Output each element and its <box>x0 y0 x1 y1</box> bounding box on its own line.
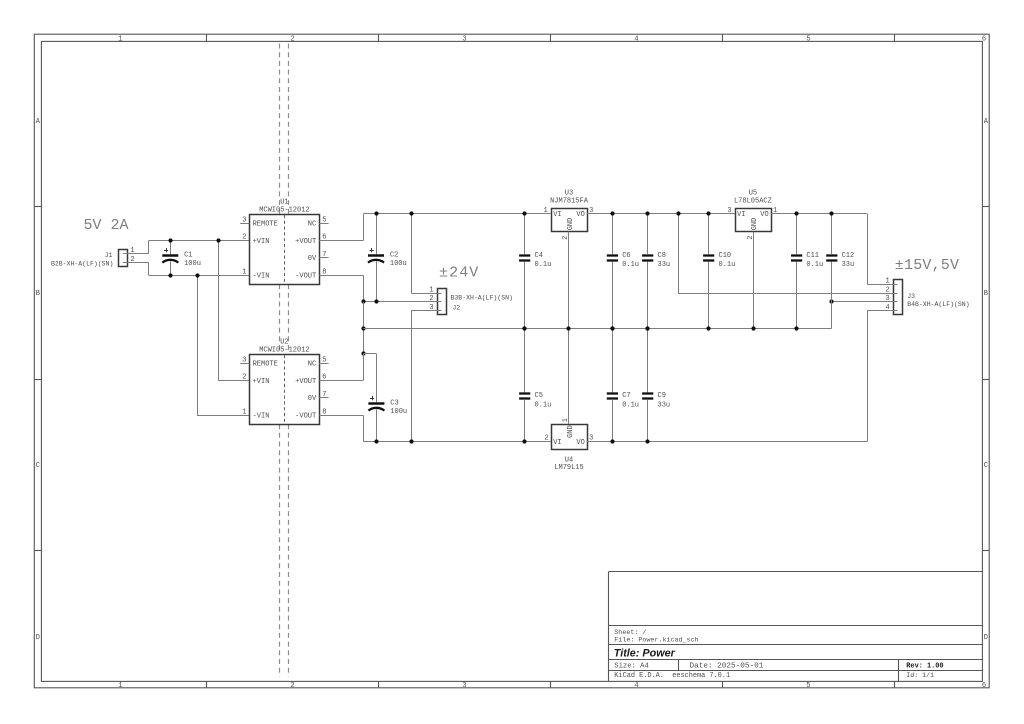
svg-text:C4: C4 <box>535 252 543 260</box>
svg-text:NC: NC <box>308 361 316 369</box>
junction C12 top <box>829 211 833 215</box>
svg-text:0.1u: 0.1u <box>719 261 736 269</box>
svg-text:NC: NC <box>308 221 316 229</box>
junction C1 bottom <box>168 273 172 277</box>
svg-text:1: 1 <box>242 268 246 276</box>
wire -15V rail <box>587 441 868 443</box>
wire U3 VO to U5 VI <box>587 213 735 215</box>
svg-text:File: Power.kicad_sch: File: Power.kicad_sch <box>614 636 698 644</box>
junction J3 pin3 / C12 <box>829 299 833 303</box>
svg-text:A: A <box>36 118 41 126</box>
wire -V input rail <box>149 275 250 277</box>
svg-text:4: 4 <box>885 304 889 312</box>
wire U2 -VOUT <box>319 415 363 441</box>
capacitor C6 0.1u <box>607 214 639 328</box>
svg-text:2: 2 <box>290 682 294 690</box>
capacitor C8 33u <box>642 214 670 328</box>
svg-text:D: D <box>984 634 988 642</box>
svg-text:C3: C3 <box>390 399 398 407</box>
svg-text:0.1u: 0.1u <box>535 401 552 409</box>
junction U2 +VIN branch <box>216 238 220 242</box>
svg-text:0V: 0V <box>308 255 317 263</box>
wire GND rail corner up <box>831 302 833 328</box>
junction C5 bottom <box>522 439 526 443</box>
svg-text:VO: VO <box>576 439 584 447</box>
svg-text:B3B-XH-A(LF)(SN): B3B-XH-A(LF)(SN) <box>451 295 513 302</box>
svg-text:1: 1 <box>429 286 433 294</box>
svg-text:VI: VI <box>553 211 561 219</box>
svg-text:J1: J1 <box>105 252 113 259</box>
svg-text:±24V: ±24V <box>439 264 479 281</box>
svg-text:Rev: 1.00: Rev: 1.00 <box>906 662 943 670</box>
svg-text:C2: C2 <box>390 252 398 260</box>
svg-text:3: 3 <box>429 304 433 312</box>
capacitor C10 0.1u <box>703 214 735 328</box>
svg-text:U3: U3 <box>565 190 573 198</box>
svg-text:2: 2 <box>885 286 889 294</box>
wire branch to U2 -VIN <box>197 275 249 415</box>
isolation barrier dashed line left <box>279 44 281 677</box>
svg-text:MCWI05-12012: MCWI05-12012 <box>259 346 309 354</box>
svg-text:33u: 33u <box>658 261 671 269</box>
svg-text:+VIN: +VIN <box>253 238 270 246</box>
junction +24V rail at J2 branch <box>409 211 413 215</box>
svg-text:2: 2 <box>242 374 246 382</box>
junction C6 bottom <box>610 326 614 330</box>
J1 labels <box>51 252 113 267</box>
svg-text:100u: 100u <box>390 260 407 268</box>
svg-text:B4B-XH-A(LF)(SN): B4B-XH-A(LF)(SN) <box>907 301 969 308</box>
svg-text:KiCad E.D.A. eeschema 7.0.1: KiCad E.D.A. eeschema 7.0.1 <box>614 672 730 680</box>
title block <box>609 571 983 681</box>
wire U1 +VOUT <box>319 214 363 241</box>
svg-text:C7: C7 <box>622 392 630 400</box>
polarized capacitor C1 100u <box>162 241 201 276</box>
svg-text:C1: C1 <box>184 252 192 260</box>
wire branch J2 pin1 <box>411 214 437 294</box>
junction C2 bottom <box>374 299 378 303</box>
svg-text:5: 5 <box>322 216 326 224</box>
svg-text:2: 2 <box>290 35 294 43</box>
svg-text:1: 1 <box>118 35 122 43</box>
svg-text:7: 7 <box>322 251 326 259</box>
svg-text:0.1u: 0.1u <box>622 261 639 269</box>
svg-text:B: B <box>36 290 40 298</box>
svg-text:L78L05ACZ: L78L05ACZ <box>734 198 772 206</box>
junction U5 GND on rail <box>751 326 755 330</box>
svg-text:5V 2A: 5V 2A <box>84 217 129 234</box>
wire 5V down to J3 pin1 <box>867 214 893 285</box>
svg-text:2: 2 <box>242 234 246 242</box>
junction U2 -VIN branch <box>195 273 199 277</box>
junction C11 bottom <box>794 326 798 330</box>
junction C11 top <box>794 211 798 215</box>
svg-text:0.1u: 0.1u <box>806 261 823 269</box>
svg-text:C5: C5 <box>535 392 543 400</box>
svg-text:VO: VO <box>760 211 768 219</box>
svg-text:C: C <box>984 462 988 470</box>
wire mid rail to J2 pin2 <box>363 301 437 303</box>
wire J1.2 down to -V rail <box>148 262 150 275</box>
svg-text:C9: C9 <box>658 392 666 400</box>
svg-text:LM79L15: LM79L15 <box>554 464 583 472</box>
wire branch to U2 +VIN <box>219 241 250 381</box>
junction mid/C3 branch <box>361 351 365 355</box>
svg-text:VI: VI <box>737 211 745 219</box>
junction C8 bottom <box>645 326 649 330</box>
svg-text:1: 1 <box>543 207 547 215</box>
wire branch to J3 pin2 +15V <box>678 214 893 294</box>
junction GND vertical on GND rail <box>566 326 570 330</box>
svg-text:Title: Power: Title: Power <box>614 648 676 660</box>
junction C10 bottom <box>706 326 710 330</box>
svg-text:3: 3 <box>462 682 466 690</box>
junction C4 bottom <box>522 326 526 330</box>
svg-text:B2B-XH-A(LF)(SN): B2B-XH-A(LF)(SN) <box>51 260 113 267</box>
junction C6 top <box>610 211 614 215</box>
junction J2 pin3 on -24V rail <box>409 439 413 443</box>
svg-text:5: 5 <box>806 682 810 690</box>
wire +V input rail <box>149 240 250 242</box>
svg-text:±15V,5V: ±15V,5V <box>895 257 959 274</box>
svg-text:2: 2 <box>429 295 433 303</box>
svg-text:U5: U5 <box>749 190 757 198</box>
wire mid down to GND rail <box>363 302 365 354</box>
svg-text:C10: C10 <box>719 252 732 260</box>
polarized capacitor C3 100u <box>368 354 407 442</box>
svg-text:100u: 100u <box>184 260 201 268</box>
svg-text:100u: 100u <box>390 408 407 416</box>
svg-text:0.1u: 0.1u <box>535 261 552 269</box>
svg-text:4: 4 <box>634 682 638 690</box>
connector J2 <box>411 286 446 314</box>
svg-text:J2: J2 <box>452 304 460 311</box>
svg-text:NJM7815FA: NJM7815FA <box>550 198 589 206</box>
svg-text:33u: 33u <box>842 261 855 269</box>
svg-text:6: 6 <box>982 35 986 43</box>
junction C8 top <box>645 211 649 215</box>
svg-text:MCWI05-12012: MCWI05-12012 <box>259 206 309 214</box>
wire +24V rail <box>363 213 550 215</box>
regulator U4 LM79L15 <box>544 418 593 472</box>
junction C9 bottom <box>645 439 649 443</box>
wire U2 +VOUT <box>319 354 363 381</box>
svg-text:VO: VO <box>576 211 584 219</box>
svg-text:5: 5 <box>322 356 326 364</box>
svg-text:+VOUT: +VOUT <box>295 378 316 386</box>
svg-text:3: 3 <box>462 35 466 43</box>
DC-DC converter U1 MCWI05-12012 <box>240 199 328 285</box>
svg-text:2: 2 <box>544 435 548 443</box>
svg-text:Date: 2025-05-01: Date: 2025-05-01 <box>690 662 764 670</box>
svg-text:REMOTE: REMOTE <box>253 221 278 229</box>
svg-text:C8: C8 <box>658 252 666 260</box>
svg-text:33u: 33u <box>658 401 671 409</box>
svg-text:7: 7 <box>322 391 326 399</box>
svg-text:5: 5 <box>806 35 810 43</box>
svg-text:Id: 1/1: Id: 1/1 <box>906 672 934 679</box>
junction C3 bottom <box>374 439 378 443</box>
wire C3 branch <box>363 353 376 355</box>
wire J1.1 up to +V rail <box>148 241 150 254</box>
junction C9 top <box>645 326 649 330</box>
wire J3 pin4 branch -15V <box>867 310 893 441</box>
svg-text:C6: C6 <box>622 252 630 260</box>
junction mid at x363 <box>361 299 365 303</box>
junction C1 top <box>168 238 172 242</box>
svg-text:2: 2 <box>130 256 134 264</box>
wire U1 -VOUT <box>319 275 363 301</box>
svg-text:-VOUT: -VOUT <box>295 413 316 421</box>
junction GND rail start <box>361 326 365 330</box>
regulator U5 L78L05ACZ <box>727 190 777 240</box>
junction C5 top <box>522 326 526 330</box>
capacitor C9 33u <box>642 328 670 442</box>
connector J3 <box>867 278 902 315</box>
svg-text:GND: GND <box>567 425 575 438</box>
wire -24V rail <box>363 441 551 443</box>
svg-text:A: A <box>984 118 989 126</box>
svg-text:-VOUT: -VOUT <box>295 273 316 281</box>
svg-text:C11: C11 <box>806 252 819 260</box>
svg-text:GND: GND <box>567 218 575 231</box>
svg-text:6: 6 <box>982 682 986 690</box>
DC-DC converter U2 MCWI05-12012 <box>240 339 328 425</box>
capacitor C4 0.1u <box>519 214 551 328</box>
svg-text:4: 4 <box>634 35 638 43</box>
wire J2 pin3 branch <box>411 310 437 441</box>
svg-text:C12: C12 <box>842 252 855 260</box>
svg-text:REMOTE: REMOTE <box>253 361 278 369</box>
svg-text:1: 1 <box>885 278 889 286</box>
capacitor C5 0.1u <box>519 328 551 442</box>
junction C7 bottom <box>610 439 614 443</box>
wire U5 VO rail <box>771 213 868 215</box>
junction C10 top <box>706 211 710 215</box>
svg-text:C: C <box>36 462 40 470</box>
svg-text:GND: GND <box>751 218 759 231</box>
svg-text:J3: J3 <box>907 293 915 300</box>
svg-text:Size: A4: Size: A4 <box>614 662 649 670</box>
junction +15V branch <box>676 211 680 215</box>
svg-text:+VIN: +VIN <box>253 378 270 386</box>
svg-text:3: 3 <box>885 295 889 303</box>
junction C2 top <box>374 211 378 215</box>
svg-text:1: 1 <box>242 408 246 416</box>
J3 labels <box>907 293 969 308</box>
capacitor C11 0.1u <box>791 214 823 328</box>
regulator U3 NJM7815FA <box>543 190 593 240</box>
wire U3/U4 GND vertical <box>568 232 570 425</box>
svg-text:1: 1 <box>118 682 122 690</box>
capacitor C12 33u <box>826 214 854 328</box>
svg-text:D: D <box>36 634 40 642</box>
connector J1 <box>119 247 149 266</box>
capacitor C7 0.1u <box>607 328 639 442</box>
svg-text:1: 1 <box>130 247 134 255</box>
wire J3 pin3 to GND <box>832 301 893 303</box>
svg-text:3: 3 <box>242 356 246 364</box>
J2 labels <box>451 295 513 312</box>
junction C7 top <box>610 326 614 330</box>
svg-text:-VIN: -VIN <box>253 413 270 421</box>
polarized capacitor C2 100u <box>368 214 407 302</box>
wire U5 GND <box>753 232 755 328</box>
svg-text:-VIN: -VIN <box>253 273 270 281</box>
svg-text:0.1u: 0.1u <box>622 401 639 409</box>
junction C4 top <box>522 211 526 215</box>
svg-text:+VOUT: +VOUT <box>295 238 316 246</box>
svg-text:VI: VI <box>553 439 561 447</box>
svg-text:B: B <box>984 290 988 298</box>
svg-text:3: 3 <box>242 216 246 224</box>
wire GND rail <box>363 328 832 330</box>
isolation barrier dashed line right <box>288 44 290 677</box>
svg-text:0V: 0V <box>308 395 317 403</box>
